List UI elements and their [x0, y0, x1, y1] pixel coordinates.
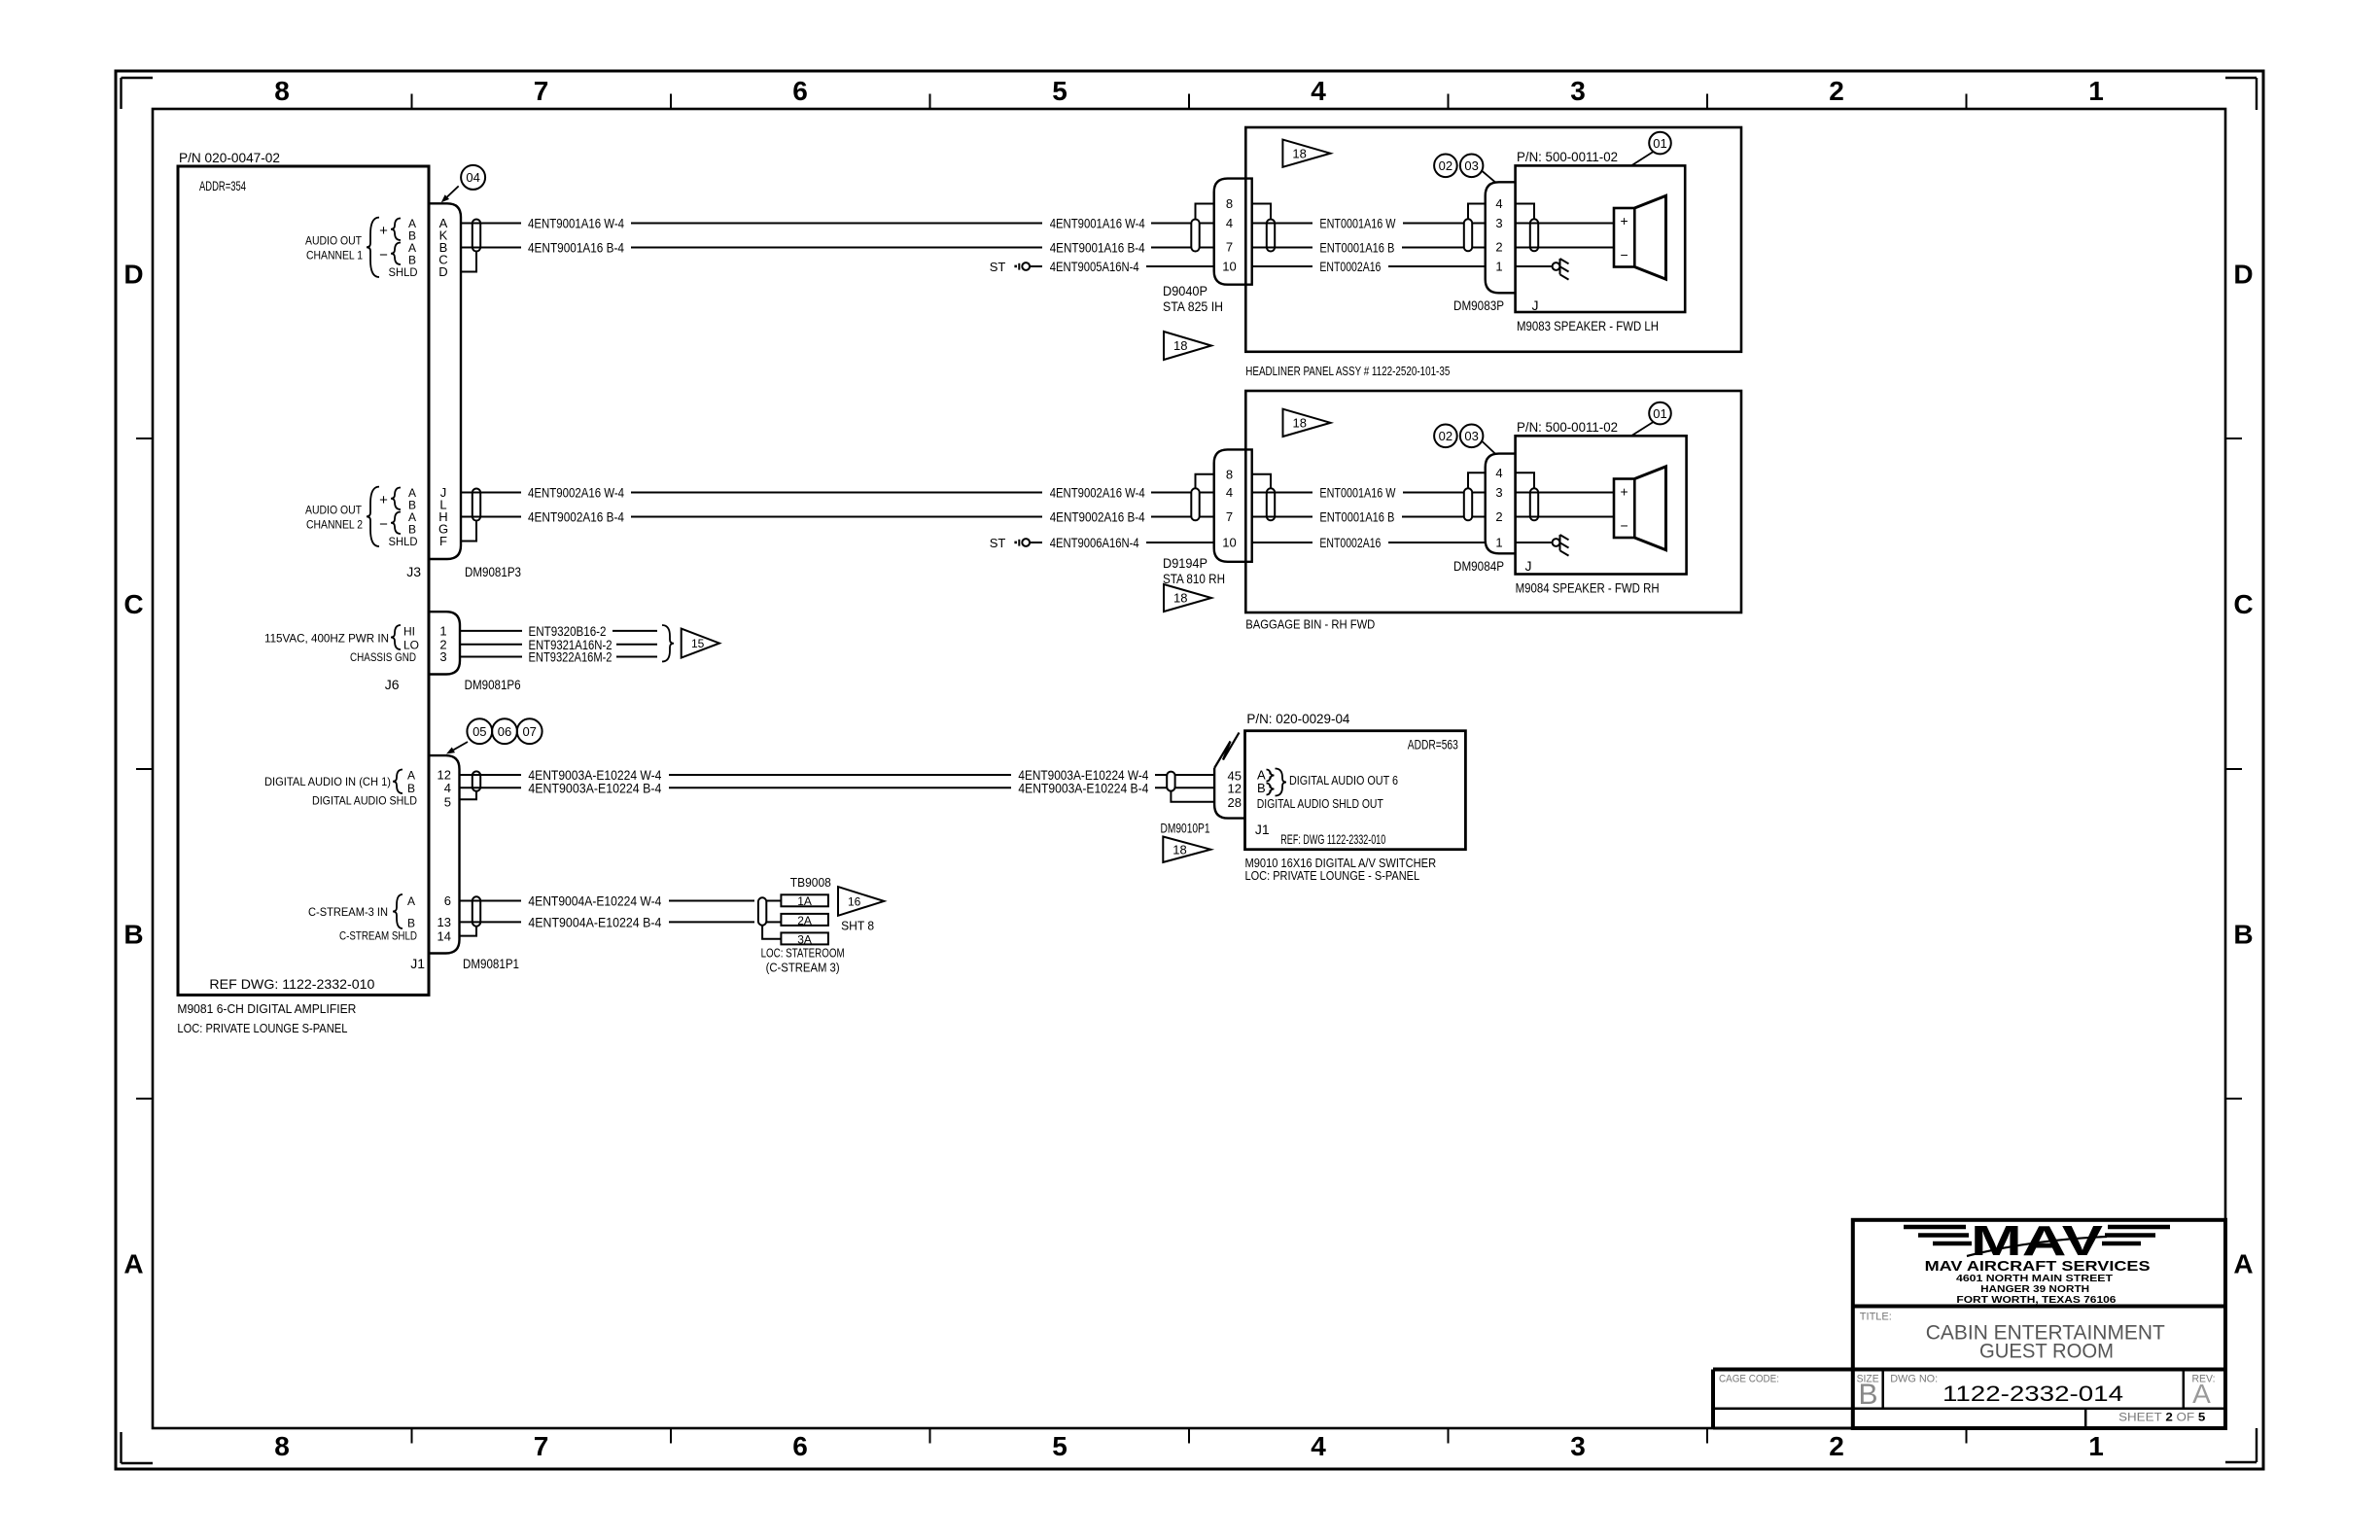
svg-text:3: 3: [1495, 485, 1502, 500]
svg-text:ENT0001A16 B: ENT0001A16 B: [1319, 240, 1394, 256]
svg-text:5: 5: [1052, 76, 1067, 106]
svg-text:5: 5: [1052, 1431, 1067, 1461]
svg-text:10: 10: [1222, 536, 1236, 550]
svg-text:HI: HI: [403, 625, 415, 639]
connector J3 pin letters A K B C D: [438, 216, 447, 279]
pin 4 shield jumper right channel 2: [1516, 472, 1534, 488]
pin 4 shield jumper left channel 1: [1468, 204, 1486, 220]
pin 8 shield jumper left: [1196, 204, 1214, 220]
svg-text:7: 7: [534, 76, 549, 106]
wire 4ENT9001A16 W-4: [461, 216, 1214, 231]
svg-text:4ENT9003A-E10224 B-4: 4ENT9003A-E10224 B-4: [1018, 780, 1148, 795]
wire ENT9320B16-2: [460, 623, 657, 639]
svg-text:F: F: [439, 534, 447, 548]
svg-text:4ENT9001A16 B-4: 4ENT9001A16 B-4: [528, 240, 624, 256]
wire ENT0001A16 B channel 1: [1252, 240, 1486, 256]
svg-text:13: 13: [437, 915, 451, 929]
pin 8 shield jumper right channel 2: [1252, 474, 1271, 489]
svg-text:1: 1: [1495, 536, 1502, 550]
svg-text:J: J: [1525, 558, 1532, 574]
off-sheet flag 16 SHT 8: [838, 887, 884, 932]
svg-text:A: A: [407, 769, 415, 783]
svg-text:LOC: PRIVATE LOUNGE - S-PA: LOC: PRIVATE LOUNGE - S-PANEL: [1245, 868, 1420, 883]
svg-text:+: +: [379, 492, 388, 508]
svg-text:02: 02: [1439, 429, 1452, 443]
wire 4ENT9006A16N-4 with ST stub: [990, 535, 1214, 550]
disconnect D9040P pins 8 4 7 10: [1222, 196, 1236, 274]
terminal strip TB9008: [758, 875, 831, 926]
amplifier M9081 name labels: [177, 1001, 356, 1035]
svg-text:3: 3: [1495, 216, 1502, 230]
wire DM9084P pin 1 to ground: [1516, 542, 1553, 543]
svg-text:+: +: [1621, 213, 1628, 228]
sheet inner frame: [153, 109, 2225, 1428]
baggage bin boundary box: [1245, 391, 1741, 612]
svg-text:B: B: [2233, 920, 2253, 950]
svg-text:D9040P: D9040P: [1163, 283, 1207, 298]
svg-text:7: 7: [534, 1431, 549, 1461]
svg-text:BAGGAGE BIN - RH FWD: BAGGAGE BIN - RH FWD: [1245, 617, 1375, 632]
wire 4ENT9002A16 W-4: [461, 485, 1214, 501]
svg-text:4: 4: [1226, 216, 1233, 230]
pin 8 shield jumper right: [1252, 204, 1271, 220]
cage code field: [1719, 1374, 1779, 1385]
svg-text:TITLE:: TITLE:: [1860, 1312, 1892, 1323]
svg-text:SHLD: SHLD: [389, 265, 418, 279]
svg-text:6: 6: [444, 893, 451, 908]
svg-text:J6: J6: [385, 677, 400, 692]
svg-text:1: 1: [2088, 76, 2104, 106]
svg-text:MAV AIRCRAFT SERVICES: MAV AIRCRAFT SERVICES: [1925, 1258, 2151, 1275]
svg-text:J1: J1: [1255, 822, 1270, 837]
terminal 1A: [766, 894, 828, 908]
speaker M9084 symbol: [1614, 467, 1666, 550]
svg-text:5: 5: [444, 795, 451, 810]
svg-text:J3: J3: [406, 564, 421, 579]
switcher name labels: [1245, 856, 1437, 883]
connector J6 reference labels: [385, 677, 521, 692]
connector J1 pins 12 4 5: [437, 768, 451, 810]
switcher output labels: [1257, 768, 1398, 811]
svg-text:AUDIO OUT: AUDIO OUT: [305, 234, 363, 248]
wire ENT0001A16 W channel 2: [1252, 485, 1486, 501]
svg-text:4ENT9005A16N-4: 4ENT9005A16N-4: [1050, 259, 1139, 274]
connector J1 reference labels: [410, 956, 519, 971]
svg-text:ST: ST: [990, 536, 1006, 550]
disconnect D9040P labels: [1163, 283, 1223, 314]
svg-text:4: 4: [1311, 76, 1326, 106]
svg-text:ENT0002A16: ENT0002A16: [1319, 535, 1381, 550]
svg-text:ENT9322A16M-2: ENT9322A16M-2: [529, 649, 612, 665]
off-sheet flag 15: [682, 629, 719, 658]
svg-text:01: 01: [1653, 136, 1666, 151]
svg-text:ENT0001A16 B: ENT0001A16 B: [1319, 509, 1394, 525]
balloons 02 03 channel 2: [1434, 425, 1495, 454]
company name and address: [1925, 1258, 2151, 1306]
svg-text:2: 2: [1829, 76, 1844, 106]
svg-text:1: 1: [439, 624, 446, 639]
svg-text:115VAC, 400HZ PWR IN: 115VAC, 400HZ PWR IN: [264, 632, 389, 646]
connector J3 pin letters J L H G F: [438, 485, 448, 548]
svg-text:SHT 8: SHT 8: [841, 919, 874, 933]
svg-text:4: 4: [1495, 196, 1502, 211]
svg-text:18: 18: [1292, 146, 1306, 160]
svg-text:14: 14: [437, 929, 451, 944]
svg-text:P/N 020-0047-02: P/N 020-0047-02: [179, 150, 280, 165]
flag 18 inside baggage bin: [1283, 409, 1331, 437]
amplifier M9081 body: [178, 166, 429, 995]
svg-text:2: 2: [1495, 240, 1502, 255]
svg-text:−: −: [379, 516, 388, 533]
connector J6 DM9081P6 body: [429, 612, 460, 674]
wire DM9083P pin 3 to speaker plus: [1516, 223, 1614, 225]
svg-text:2: 2: [1495, 509, 1502, 524]
shield drop at DM9010P1: [1171, 791, 1214, 802]
connector DM9010P1 reference label: [1161, 821, 1210, 836]
svg-text:10: 10: [1222, 260, 1236, 274]
svg-text:HEADLINER PANEL ASSY # 112: HEADLINER PANEL ASSY # 1122-2520-101-35: [1245, 364, 1450, 378]
shield splice at DM9010P1: [1167, 772, 1174, 791]
svg-text:FORT WORTH, TEXAS 76106: FORT WORTH, TEXAS 76106: [1956, 1295, 2117, 1306]
svg-text:8: 8: [274, 76, 290, 106]
label C-STREAM-3 IN: [308, 894, 417, 943]
connector J1 pins 6 13 14: [437, 893, 451, 944]
connector J1 DM9081P1 body: [429, 755, 460, 953]
svg-text:4: 4: [444, 781, 451, 795]
shield splice at J3 channel 2: [472, 489, 480, 521]
wire 4ENT9004A-E10224 B-4: [460, 914, 755, 929]
wire ENT0001A16 W channel 1: [1252, 216, 1486, 231]
baggage bin name label: [1245, 617, 1375, 632]
svg-text:DM9084P: DM9084P: [1453, 558, 1504, 574]
svg-text:2A: 2A: [797, 914, 812, 927]
wire DM9084P pin 3 to speaker plus: [1516, 492, 1614, 494]
speaker assembly box channel 2: [1516, 419, 1687, 575]
headliner panel boundary box: [1245, 127, 1741, 352]
label AUDIO OUT CHANNEL 1: [305, 217, 418, 279]
svg-text:18: 18: [1172, 842, 1186, 857]
shield splice left of DM9083P: [1464, 219, 1472, 251]
svg-text:7: 7: [1226, 240, 1233, 255]
svg-text:8: 8: [1226, 467, 1233, 481]
svg-text:C-STREAM-3 IN: C-STREAM-3 IN: [308, 905, 388, 919]
connector J3 DM9081P3 body: [429, 203, 461, 559]
shield splice left of DM9084P: [1464, 488, 1472, 520]
svg-text:HANGER 39 NORTH: HANGER 39 NORTH: [1980, 1284, 2089, 1295]
shield drop wire channel 1: [461, 252, 476, 272]
svg-text:A: A: [2233, 1249, 2253, 1279]
shield splice at J1 digital audio: [472, 771, 480, 790]
zone tick marks: [136, 94, 2242, 1444]
svg-text:05: 05: [472, 724, 486, 739]
connector DM9083P labels: [1453, 297, 1539, 313]
svg-text:03: 03: [1464, 429, 1478, 443]
svg-text:A: A: [123, 1249, 143, 1279]
balloons 02 03 channel 1: [1434, 155, 1495, 183]
svg-text:−: −: [1621, 518, 1628, 534]
wire ENT0002A16 channel 1: [1252, 259, 1486, 274]
disconnect D9040P body: [1214, 179, 1252, 285]
svg-text:M9081 6-CH DIGITAL AMPLIFIE: M9081 6-CH DIGITAL AMPLIFIER: [177, 1001, 356, 1016]
svg-text:4601 NORTH MAIN STREET: 4601 NORTH MAIN STREET: [1956, 1274, 2113, 1284]
svg-text:LOC: STATEROOM: LOC: STATEROOM: [761, 946, 845, 961]
svg-text:1122-2332-014: 1122-2332-014: [1942, 1382, 2123, 1406]
title field: [1860, 1312, 2165, 1363]
shield splice at J1 c-stream: [472, 896, 480, 926]
svg-text:12: 12: [1228, 782, 1242, 796]
shield splice right of D9194P: [1267, 488, 1275, 520]
svg-text:4: 4: [1311, 1431, 1326, 1461]
svg-text:DWG NO:: DWG NO:: [1890, 1374, 1938, 1385]
svg-text:DM9081P6: DM9081P6: [465, 677, 521, 692]
svg-text:D: D: [2233, 260, 2253, 290]
svg-text:ADDR=563: ADDR=563: [1408, 737, 1458, 752]
switcher J1 and ref labels: [1255, 822, 1386, 847]
shield splice left of D9040P: [1191, 220, 1199, 252]
terminal 3A: [762, 926, 828, 947]
speaker M9084 name label: [1516, 580, 1660, 596]
svg-text:STA 810 RH: STA 810 RH: [1163, 571, 1225, 586]
svg-text:01: 01: [1653, 406, 1666, 421]
wire DM9084P pin 2 to speaker minus: [1516, 516, 1614, 518]
wire ENT0002A16 channel 2: [1252, 535, 1486, 550]
svg-text:CHANNEL 1: CHANNEL 1: [306, 249, 363, 262]
svg-text:8: 8: [1226, 196, 1233, 211]
shield splice right of DM9084P: [1530, 488, 1538, 520]
svg-text:A: A: [407, 894, 415, 908]
switcher M9010 body: [1245, 731, 1466, 850]
svg-text:3A: 3A: [797, 932, 812, 946]
connector DM9083P body: [1486, 182, 1516, 293]
corner trim mark bottom-left: [122, 1432, 154, 1463]
shield splice left of D9194P: [1191, 488, 1199, 520]
flag 18 at switcher: [1163, 837, 1210, 862]
label 115VAC 400HZ PWR IN: [264, 625, 419, 665]
svg-text:STA 825 IH: STA 825 IH: [1163, 298, 1223, 314]
svg-text:06: 06: [498, 724, 511, 739]
svg-text:4: 4: [1226, 485, 1233, 500]
flag 18 below D9040P: [1164, 332, 1211, 360]
svg-text:1: 1: [2088, 1431, 2104, 1461]
svg-text:C: C: [123, 589, 143, 619]
svg-text:M9084 SPEAKER - FWD RH: M9084 SPEAKER - FWD RH: [1516, 580, 1660, 596]
svg-text:ADDR=354: ADDR=354: [199, 178, 246, 193]
svg-text:CAGE CODE:: CAGE CODE:: [1719, 1374, 1779, 1385]
wire ENT0001A16 B channel 2: [1252, 509, 1486, 525]
svg-text:DM9081P1: DM9081P1: [463, 956, 519, 971]
svg-text:D: D: [438, 264, 447, 279]
TB9008 location labels: [761, 946, 845, 975]
svg-text:1: 1: [1495, 260, 1502, 274]
title block outline: [1713, 1220, 2225, 1428]
speaker M9083 name label: [1517, 318, 1659, 333]
svg-text:3: 3: [1570, 76, 1586, 106]
amplifier M9081 part number label: [179, 150, 280, 165]
svg-text:+: +: [1621, 484, 1628, 500]
shield drop digital audio: [460, 791, 477, 800]
svg-text:2: 2: [1829, 1431, 1844, 1461]
svg-text:18: 18: [1173, 591, 1187, 606]
svg-text:+: +: [379, 223, 388, 239]
svg-text:P/N: 020-0029-04: P/N: 020-0029-04: [1246, 711, 1349, 726]
wire DM9083P pin 2 to speaker minus: [1516, 247, 1614, 249]
wire DM9083P pin 1 to ground: [1516, 265, 1553, 267]
svg-text:P/N: 500-0011-02: P/N: 500-0011-02: [1517, 419, 1618, 435]
connector DM9084P labels: [1453, 558, 1532, 574]
svg-text:D9194P: D9194P: [1163, 555, 1207, 571]
shield splice right of DM9083P: [1530, 219, 1538, 251]
svg-text:4ENT9006A16N-4: 4ENT9006A16N-4: [1050, 535, 1139, 550]
svg-text:C-STREAM SHLD: C-STREAM SHLD: [339, 929, 417, 943]
wire 4ENT9001A16 B-4: [461, 240, 1214, 256]
flag 18 inside headliner panel: [1282, 140, 1330, 167]
svg-text:(C-STREAM 3): (C-STREAM 3): [766, 961, 840, 975]
corner trim mark bottom-right: [2225, 1428, 2257, 1462]
svg-text:P/N: 500-0011-02: P/N: 500-0011-02: [1517, 149, 1618, 164]
wire ENT9322A16M-2: [460, 649, 657, 665]
svg-text:−: −: [379, 247, 388, 263]
svg-text:3: 3: [1570, 1431, 1586, 1461]
svg-text:4ENT9001A16 W-4: 4ENT9001A16 W-4: [528, 216, 624, 231]
flag 18 below D9194P: [1164, 584, 1211, 612]
svg-text:6: 6: [792, 76, 808, 106]
balloon 01 channel 2: [1631, 402, 1671, 436]
speaker assembly box channel 1: [1516, 149, 1686, 312]
terminal 2A: [766, 914, 828, 927]
size field: [1857, 1374, 1879, 1412]
svg-text:7: 7: [1226, 509, 1233, 524]
svg-text:16: 16: [848, 895, 861, 909]
chassis ground symbol channel 2: [1553, 535, 1569, 556]
svg-text:4ENT9002A16 B-4: 4ENT9002A16 B-4: [1050, 509, 1145, 525]
svg-text:D: D: [123, 260, 143, 290]
svg-text:4ENT9001A16 B-4: 4ENT9001A16 B-4: [1050, 240, 1145, 256]
svg-text:4ENT9004A-E10224 W-4: 4ENT9004A-E10224 W-4: [528, 893, 661, 909]
zone row letters: [123, 260, 2253, 1279]
corner trim mark top-left: [122, 78, 154, 109]
svg-text:DIGITAL AUDIO SHLD: DIGITAL AUDIO SHLD: [312, 794, 417, 808]
svg-text:AUDIO OUT: AUDIO OUT: [305, 504, 363, 517]
svg-text:DIGITAL AUDIO SHLD OUT: DIGITAL AUDIO SHLD OUT: [1257, 796, 1383, 811]
svg-text:SHLD: SHLD: [389, 535, 418, 548]
speaker M9083 symbol: [1614, 195, 1666, 279]
svg-text:ENT0002A16: ENT0002A16: [1319, 259, 1381, 274]
svg-text:J: J: [1532, 297, 1539, 313]
wire 4ENT9002A16 B-4: [461, 509, 1214, 525]
svg-text:B: B: [123, 920, 143, 950]
svg-text:3: 3: [439, 649, 446, 664]
svg-text:REF DWG: 1122-2332-010: REF DWG: 1122-2332-010: [209, 976, 374, 992]
svg-text:ENT0001A16 W: ENT0001A16 W: [1319, 485, 1396, 501]
label AUDIO OUT CHANNEL 2: [305, 486, 418, 548]
wire 4ENT9005A16N-4 with ST stub: [990, 259, 1214, 274]
svg-text:GUEST ROOM: GUEST ROOM: [1979, 1341, 2114, 1363]
balloon 01 channel 1: [1631, 132, 1671, 166]
rev field: [2192, 1374, 2216, 1410]
svg-text:CHASSIS GND: CHASSIS GND: [350, 650, 416, 664]
svg-text:1A: 1A: [797, 894, 812, 908]
dwg no field: [1890, 1374, 2123, 1407]
svg-text:C: C: [2233, 589, 2253, 619]
svg-text:ENT0001A16 W: ENT0001A16 W: [1319, 216, 1396, 231]
svg-text:SHEET 2 OF 5: SHEET 2 OF 5: [2118, 1411, 2206, 1424]
chassis ground symbol channel 1: [1553, 259, 1569, 280]
svg-text:B: B: [407, 916, 415, 929]
wire 4ENT9004A-E10224 W-4: [460, 893, 755, 909]
wire 4ENT9003A-E10224 B-4: [460, 780, 1215, 795]
svg-text:M9083 SPEAKER - FWD LH: M9083 SPEAKER - FWD LH: [1517, 318, 1659, 333]
zone column numbers: [274, 76, 2104, 1461]
connector DM9010P1 pins 45 12 28: [1228, 768, 1242, 810]
connector J6 pins 1 2 3: [439, 624, 446, 665]
svg-text:A: A: [2192, 1379, 2211, 1409]
MAV logo: [1904, 1217, 2170, 1265]
shield splice at J3 channel 1: [472, 220, 480, 252]
svg-text:B: B: [1257, 781, 1266, 795]
svg-text:4ENT9002A16 B-4: 4ENT9002A16 B-4: [528, 509, 624, 525]
svg-text:−: −: [1621, 247, 1628, 262]
svg-text:04: 04: [466, 170, 479, 185]
shield splice right of D9040P: [1267, 220, 1275, 252]
connector DM9083P pins 4 3 2 1: [1495, 196, 1502, 274]
svg-text:LOC: PRIVATE LOUNGE S-PANEL: LOC: PRIVATE LOUNGE S-PANEL: [177, 1021, 347, 1035]
svg-text:8: 8: [274, 1431, 290, 1461]
pin 4 shield jumper left channel 2: [1468, 472, 1486, 488]
sheet field: [2118, 1411, 2206, 1424]
svg-text:28: 28: [1228, 795, 1242, 810]
svg-text:4ENT9002A16 W-4: 4ENT9002A16 W-4: [528, 485, 624, 501]
svg-text:DM9083P: DM9083P: [1453, 297, 1504, 313]
svg-text:4: 4: [1495, 466, 1502, 480]
svg-text:ST: ST: [990, 260, 1006, 274]
balloons 05 06 07: [446, 718, 542, 753]
label DIGITAL AUDIO IN CH 1: [264, 769, 417, 808]
svg-text:6: 6: [792, 1431, 808, 1461]
svg-text:4ENT9004A-E10224 B-4: 4ENT9004A-E10224 B-4: [528, 914, 661, 929]
disconnect D9194P labels: [1163, 555, 1225, 586]
svg-text:07: 07: [522, 724, 536, 739]
connector DM9084P body: [1486, 454, 1516, 554]
shield drop c-stream: [460, 927, 477, 936]
svg-text:DM9010P1: DM9010P1: [1161, 821, 1210, 836]
svg-text:18: 18: [1293, 415, 1307, 430]
svg-text:DIGITAL AUDIO IN (CH 1): DIGITAL AUDIO IN (CH 1): [264, 775, 391, 788]
power wires brace: [662, 625, 674, 662]
corner trim mark top-right: [2225, 78, 2257, 110]
disconnect D9194P body: [1214, 449, 1252, 561]
wire 4ENT9003A-E10224 W-4: [460, 767, 1215, 783]
svg-text:03: 03: [1464, 158, 1478, 173]
svg-text:18: 18: [1173, 338, 1187, 353]
headliner panel name label: [1245, 364, 1450, 378]
svg-text:REF: DWG 1122-2332-010: REF: DWG 1122-2332-010: [1280, 831, 1385, 847]
shield drop wire channel 2: [461, 521, 476, 542]
pin 4 shield jumper right channel 1: [1516, 204, 1534, 220]
svg-text:B: B: [1858, 1379, 1877, 1411]
svg-text:DM9081P3: DM9081P3: [465, 564, 521, 579]
svg-text:15: 15: [691, 637, 705, 650]
svg-text:DIGITAL AUDIO OUT 6: DIGITAL AUDIO OUT 6: [1289, 773, 1398, 787]
disconnect D9194P pins 8 4 7 10: [1222, 467, 1236, 549]
svg-text:02: 02: [1439, 158, 1452, 173]
wire ENT9321A16N-2: [460, 637, 657, 652]
connector DM9010P1 body with break: [1214, 733, 1244, 819]
svg-text:CHANNEL 2: CHANNEL 2: [306, 518, 363, 532]
pin 8 shield jumper left channel 2: [1196, 474, 1214, 489]
svg-text:4ENT9001A16 W-4: 4ENT9001A16 W-4: [1050, 216, 1145, 231]
svg-text:4ENT9002A16 W-4: 4ENT9002A16 W-4: [1050, 485, 1145, 501]
connector J3 reference labels: [406, 564, 521, 579]
